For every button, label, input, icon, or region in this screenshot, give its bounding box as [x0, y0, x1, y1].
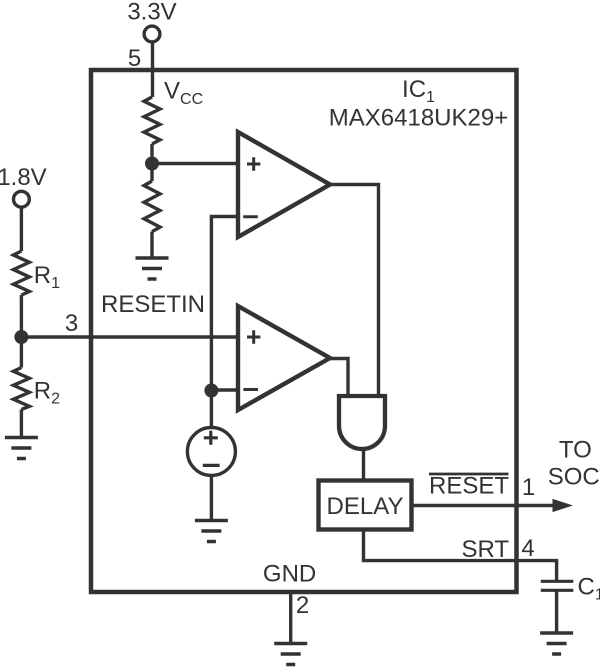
svg-text:3.3V: 3.3V — [127, 0, 176, 26]
svg-text:R1: R1 — [34, 262, 60, 292]
wire node A to lower resistor — [150, 164, 153, 182]
wire node A to comparator U1a + input — [152, 162, 238, 165]
wire 3.3V terminal to VCC resistor — [151, 43, 154, 98]
wire node B to U1b - input — [211, 388, 238, 391]
svg-text:TO: TO — [559, 437, 592, 464]
svg-text:IC1: IC1 — [402, 76, 435, 106]
svg-text:R2: R2 — [34, 378, 60, 408]
wire upper resistor to node A — [150, 144, 153, 164]
DELAY block — [319, 481, 412, 530]
svg-text:3: 3 — [65, 310, 78, 337]
1.8V terminal — [14, 191, 30, 207]
svg-text:2: 2 — [296, 592, 309, 619]
svg-text:1: 1 — [522, 474, 535, 501]
svg-text:5: 5 — [128, 45, 141, 72]
svg-text:SRT: SRT — [462, 536, 510, 563]
node B junction dot — [204, 384, 218, 398]
svg-text:GND: GND — [263, 560, 316, 587]
ground (R2) — [5, 438, 38, 459]
AND gate G1 — [339, 396, 385, 449]
wire lower resistor to ground — [150, 232, 153, 258]
IC1 boundary box — [91, 70, 517, 592]
wire U1b output to AND gate — [330, 359, 348, 397]
svg-text:C1: C1 — [578, 574, 600, 604]
op-amp U1a (upper comparator) — [238, 132, 330, 237]
svg-text:VCC: VCC — [164, 78, 203, 109]
svg-text:1.8V: 1.8V — [0, 164, 47, 191]
3.3V terminal — [144, 26, 160, 42]
voltage reference source V1 — [187, 428, 235, 476]
svg-text:RESET: RESET — [429, 473, 509, 500]
resistor R2 — [13, 368, 29, 410]
wire U1a - input to reference line — [211, 217, 238, 338]
wire node B to reference source — [210, 390, 213, 428]
wire U1a output to AND gate — [330, 185, 379, 397]
resistor (internal divider upper) — [144, 97, 160, 144]
svg-text:RESETIN: RESETIN — [101, 291, 205, 318]
wire R1 to node C — [20, 295, 23, 337]
svg-text:SOC: SOC — [548, 464, 600, 491]
wire node C to R2 — [20, 337, 23, 368]
svg-text:4: 4 — [521, 535, 534, 562]
resistor R1 — [13, 251, 29, 295]
wire reference line crossing to node B — [210, 337, 213, 390]
ground (GND pin) — [274, 644, 307, 665]
wire DELAY to RESET output — [412, 504, 557, 507]
wire GND pin to ground — [289, 592, 292, 644]
wire R2 to ground — [20, 410, 23, 438]
wire C1 to ground — [555, 590, 558, 633]
ground (C1) — [540, 633, 573, 654]
svg-text:DELAY: DELAY — [327, 493, 404, 520]
wire RESETIN node C to U1b + input — [21, 335, 238, 338]
node A junction dot — [145, 157, 159, 171]
wire DELAY to SRT pin — [364, 530, 557, 582]
ground (reference source) — [195, 521, 228, 542]
wire reference source to ground — [210, 476, 213, 521]
capacitor C1 — [541, 581, 574, 590]
ground (internal divider) — [136, 258, 169, 279]
op-amp U1b (lower comparator) — [238, 306, 330, 410]
arrow to SOC — [553, 499, 574, 512]
wire 1.8V terminal to R1 — [20, 208, 23, 251]
node C junction dot — [14, 330, 28, 344]
svg-text:MAX6418UK29+: MAX6418UK29+ — [329, 105, 508, 132]
wire AND gate to DELAY — [362, 449, 365, 482]
resistor (internal divider lower) — [144, 181, 160, 232]
